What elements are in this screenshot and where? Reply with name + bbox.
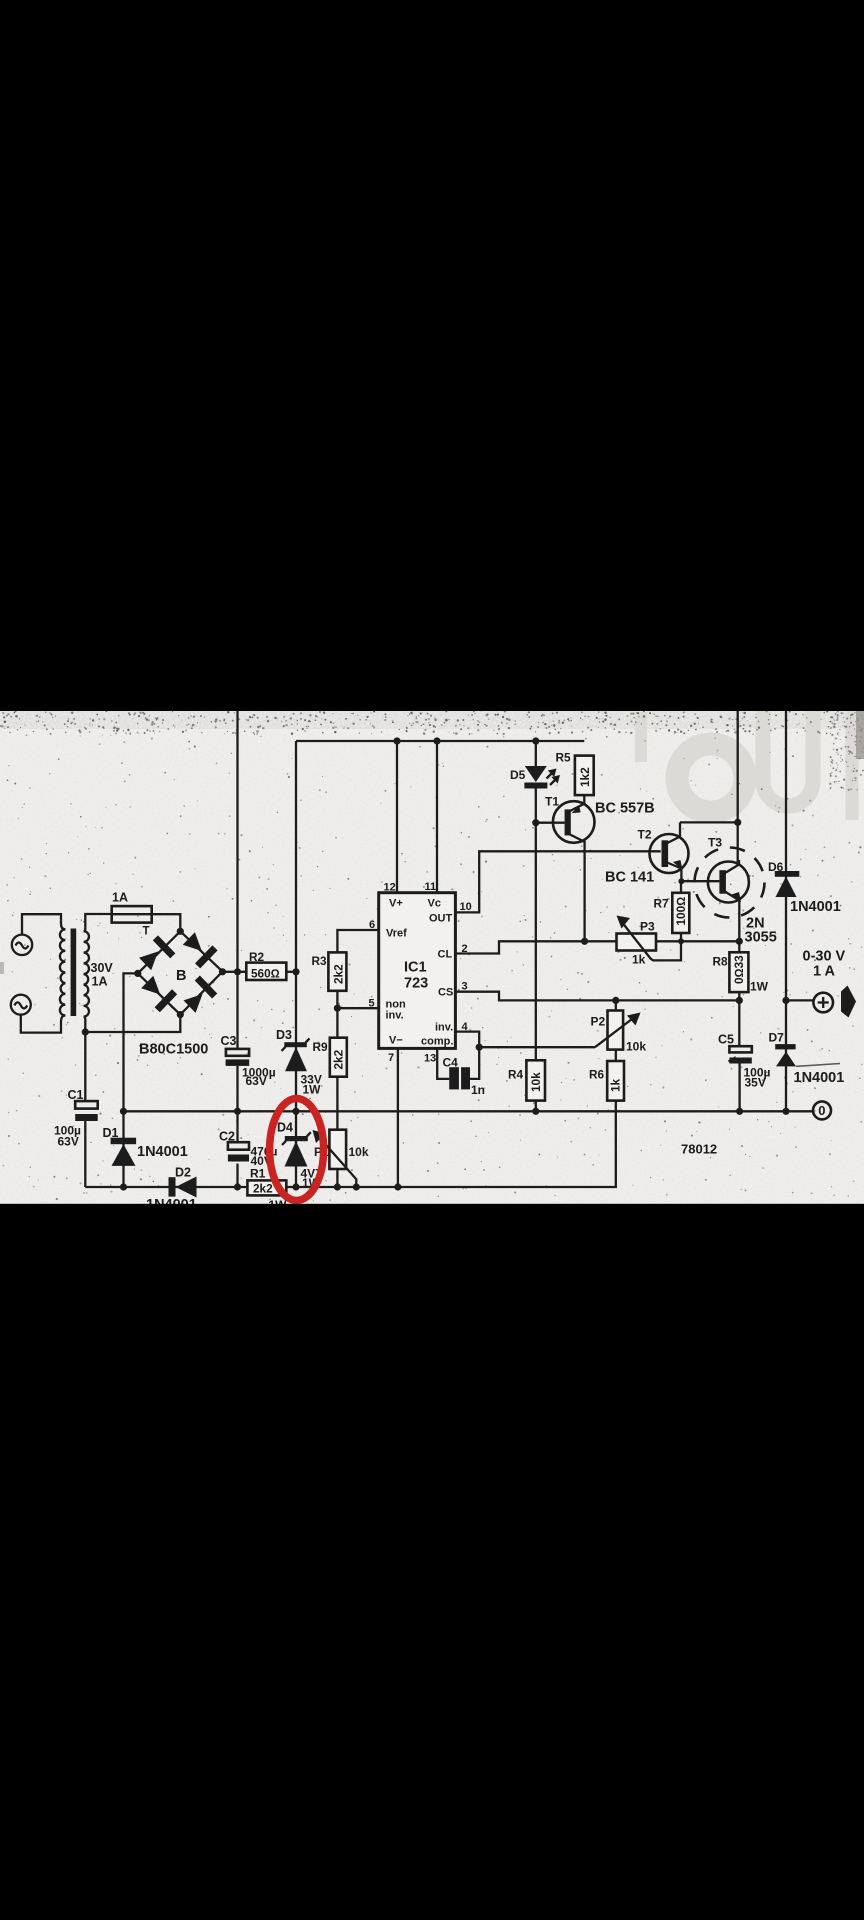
wire R5 bottom to T1 emitter (583, 795, 585, 803)
potentiometer P3 1k (617, 916, 682, 961)
diode D2 series in bottom rail (169, 1177, 197, 1198)
node line A mid: C3 to C2 (236, 1066, 238, 1142)
wire T2 collector to T3 collector line (680, 821, 738, 823)
junction C5 / 0V rail (736, 1108, 743, 1115)
junction R7 bottom / P3 wire (678, 938, 684, 944)
svg-text:P3: P3 (640, 920, 655, 934)
capacitor C5 (729, 1000, 752, 1111)
zener diode D3 33V (282, 1038, 310, 1071)
zener diode D4 4V7 (282, 1132, 311, 1166)
LED D5 (524, 741, 547, 823)
wire IC pin 11 to top rail (436, 741, 438, 893)
svg-text:R8: R8 (713, 955, 729, 969)
junction line B / bottom rail (292, 1183, 299, 1190)
bridge diode bottom-left (141, 976, 177, 1013)
junction line B / 0V rail (292, 1108, 299, 1115)
svg-text:P2: P2 (591, 1015, 606, 1029)
label 470u 40V C2 (251, 1145, 278, 1169)
transistor T1 BC557B (536, 801, 595, 851)
label 100u 35V C5 (744, 1066, 771, 1090)
svg-text:T1: T1 (545, 795, 559, 809)
resistor R2 (246, 963, 286, 981)
junction transformer secondary bottom / C1 (82, 1028, 89, 1035)
wire bottom negative rail (85, 1101, 616, 1187)
resistor R7 (672, 893, 689, 933)
svg-text:10: 10 (460, 901, 472, 913)
capacitor C2 (228, 1142, 249, 1187)
wire fuse to bridge top corner (152, 914, 181, 931)
capacitor C4 1n (449, 1067, 470, 1089)
output terminal 0 (813, 1101, 831, 1119)
svg-text:R6: R6 (589, 1068, 605, 1082)
junction bridge top corner (177, 928, 184, 935)
paper background (0, 711, 864, 1204)
resistor R9 (330, 1038, 347, 1077)
wire C1 branch (84, 1032, 86, 1187)
wire AC upper terminal to transformer primary top (22, 914, 65, 934)
potentiometer P1 10k (313, 1130, 357, 1187)
svg-text:OUT: OUT (429, 913, 453, 925)
svg-text:1A: 1A (92, 975, 108, 989)
wire transformer secondary top to fuse (84, 914, 112, 931)
junction T1 base / D5 line (532, 819, 539, 826)
fuse 1A (112, 906, 152, 923)
junction T2 collector / T3 collector line (734, 819, 741, 826)
svg-text:1N4001: 1N4001 (790, 899, 841, 915)
svg-text:T: T (143, 926, 150, 938)
svg-text:1k: 1k (609, 1078, 623, 1092)
svg-text:D7: D7 (769, 1031, 785, 1045)
node line A top: border to bridge right corner (236, 711, 238, 1049)
svg-text:1n: 1n (471, 1083, 485, 1097)
transformer T secondary winding (84, 931, 89, 1016)
wire P3 right to R7 bottom (656, 940, 739, 942)
junction P1 body / bottom rail (334, 1183, 341, 1190)
node D6-D7 line from top border (785, 711, 787, 1111)
svg-text:1A: 1A (112, 891, 128, 905)
svg-text:C1: C1 (68, 1088, 84, 1102)
svg-text:C3: C3 (221, 1034, 237, 1048)
svg-text:2: 2 (462, 943, 468, 955)
transformer T core (71, 929, 77, 1017)
junction 0V rail / C3-C2 line (234, 1108, 241, 1115)
label 30V 1A transformer (91, 961, 114, 989)
label 100u 63V C1 (54, 1124, 81, 1149)
svg-text:D1: D1 (103, 1126, 119, 1140)
resistor R5 (575, 756, 594, 796)
svg-text:T3: T3 (708, 836, 722, 850)
transistor T3 2N3055 (695, 848, 765, 942)
wire IC pin 12 to top rail (396, 741, 398, 893)
resistor R8 (729, 941, 748, 1000)
wire 0V rail (124, 1110, 814, 1112)
wire top supply rail (296, 740, 584, 742)
junction bottom rail / D1 (120, 1183, 127, 1190)
svg-text:Vref: Vref (386, 928, 407, 940)
svg-text:1k2: 1k2 (578, 767, 592, 787)
wire pin4 node to P2 wiper (479, 1046, 595, 1048)
AC mains terminal upper (12, 935, 32, 955)
svg-text:comp.: comp. (421, 1036, 453, 1048)
svg-text:inv.: inv. (386, 1010, 404, 1022)
svg-text:CS: CS (438, 987, 453, 999)
wire C4 right to pin4 node (470, 1047, 479, 1079)
bridge diode top-right (183, 932, 218, 968)
svg-text:11: 11 (425, 881, 437, 893)
svg-text:BC 557B: BC 557B (595, 801, 655, 817)
wire IC pin 7 down to bottom rail (397, 1048, 399, 1187)
svg-text:C5: C5 (718, 1033, 734, 1047)
potentiometer P2 10k (595, 1000, 641, 1049)
junction T2 emitter / T3 base / R7 (678, 878, 684, 884)
svg-text:723: 723 (404, 976, 428, 992)
svg-text:10k: 10k (626, 1040, 646, 1054)
svg-text:R2: R2 (249, 950, 265, 964)
svg-text:B: B (176, 968, 186, 984)
junction pin 11 / top rail (433, 737, 440, 744)
node T3 collector line from top border (737, 711, 739, 863)
svg-text:V+: V+ (389, 898, 403, 910)
junction D6 line / CS output wire (782, 997, 789, 1004)
svg-text:inv.: inv. (435, 1022, 453, 1034)
svg-text:Vc: Vc (428, 898, 441, 910)
junction T1 collector / CL wire (581, 938, 588, 945)
junction bridge bottom corner (177, 1011, 184, 1018)
LED D5 emission arrows (547, 769, 561, 786)
IC1 723 box (379, 893, 456, 1049)
junction bridge left corner (134, 970, 141, 977)
output arrow symbol (841, 986, 856, 1018)
svg-text:IC1: IC1 (404, 960, 427, 976)
bridge rectifier B diamond wires (138, 931, 223, 1014)
junction CS wire / P2 line (612, 997, 619, 1004)
paper tear line near D7 (796, 1064, 840, 1067)
svg-text:63V: 63V (58, 1135, 79, 1149)
transformer T primary winding (60, 929, 65, 1015)
wire transformer secondary bottom to bridge bottom corner (84, 1015, 181, 1032)
svg-text:R4: R4 (508, 1068, 524, 1082)
junction R8 bottom / CS wire (736, 997, 743, 1004)
junction bottom rail / C2 (234, 1183, 241, 1190)
bridge diode top-left (139, 935, 175, 970)
svg-text:78012: 78012 (681, 1142, 717, 1157)
svg-text:R3: R3 (312, 954, 328, 968)
svg-text:0Ω33: 0Ω33 (732, 955, 746, 984)
svg-text:CL: CL (438, 949, 453, 961)
svg-text:560Ω: 560Ω (251, 966, 280, 980)
svg-text:3: 3 (462, 981, 468, 993)
junction D7 / 0V rail (782, 1108, 789, 1115)
wire T1 collector down to CL junction (583, 851, 585, 941)
junction bridge right corner (219, 968, 226, 975)
svg-text:0-30 V: 0-30 V (803, 949, 846, 965)
output terminal plus (813, 993, 833, 1013)
svg-text:R7: R7 (654, 897, 670, 911)
transistor T2 BC141 (650, 822, 689, 873)
wire R3 top to IC pin 6 (337, 930, 378, 952)
svg-text:2k2: 2k2 (253, 1182, 273, 1196)
resistor R1 (247, 1180, 286, 1195)
svg-text:BC 141: BC 141 (605, 870, 654, 886)
wire IC pin 4 to node (455, 1032, 479, 1048)
svg-text:R9: R9 (313, 1040, 329, 1054)
bottom black bar overlay (0, 1204, 864, 1920)
svg-text:V−: V− (389, 1035, 403, 1047)
diode D1 1N4001 (111, 1111, 137, 1187)
svg-text:1N4001: 1N4001 (137, 1144, 188, 1160)
svg-text:35V: 35V (745, 1076, 766, 1090)
svg-text:D3: D3 (276, 1028, 292, 1042)
junction R4 / 0V rail (532, 1108, 539, 1115)
svg-text:0: 0 (818, 1103, 825, 1118)
junction line A / R2 wire (234, 968, 241, 975)
svg-text:10k: 10k (349, 1145, 369, 1159)
bridge diode bottom-right (183, 976, 217, 1013)
wire R2 right to line B (286, 971, 296, 973)
svg-text:2k2: 2k2 (332, 1049, 346, 1069)
wire bridge right corner to R2 (223, 971, 247, 973)
wire IC pin 13 to C4 (437, 1048, 449, 1079)
svg-text:1k: 1k (632, 953, 646, 967)
svg-text:R1: R1 (250, 1167, 266, 1181)
junction pin4 / C4 / P2 wiper wire (476, 1044, 483, 1051)
svg-text:30V: 30V (91, 961, 114, 975)
svg-text:C2: C2 (219, 1130, 235, 1144)
diode D6 1N4001 (775, 871, 800, 897)
junction pin7 / bottom rail (394, 1183, 401, 1190)
wire bridge left corner to D1 branch (124, 973, 138, 1111)
svg-text:D5: D5 (510, 768, 526, 782)
svg-text:1 A: 1 A (813, 964, 836, 980)
red highlight ellipse around D4 (270, 1099, 324, 1201)
svg-text:13: 13 (424, 1053, 436, 1065)
svg-text:B80C1500: B80C1500 (139, 1042, 208, 1058)
wire junction to IC pin 5 (337, 1007, 378, 1009)
watermark letters (677, 744, 745, 812)
svg-text:T2: T2 (638, 828, 652, 842)
junction D5 line / top rail (532, 737, 539, 744)
label 4V7 1W D4 (301, 1167, 323, 1191)
AC mains terminal lower (11, 995, 31, 1015)
svg-text:3055: 3055 (745, 930, 777, 946)
label 33V 1W D3 (301, 1073, 322, 1097)
junction T3 emitter / R8 top (736, 938, 743, 945)
svg-text:4: 4 (462, 1021, 469, 1033)
junction pin 12 / top rail (393, 737, 400, 744)
svg-text:63V: 63V (246, 1074, 267, 1088)
junction R2 / line B (292, 968, 299, 975)
capacitor C3 (226, 1049, 250, 1066)
label 1000u 63V (242, 1066, 276, 1089)
svg-text:12: 12 (384, 882, 396, 894)
junction R3-R9 / pin 5 (334, 1005, 341, 1012)
svg-text:R5: R5 (556, 751, 572, 765)
svg-text:7: 7 (388, 1052, 394, 1064)
wire R7 to T2 emitter and T3 base (681, 868, 719, 942)
wire D5 junction to R4 top (crosses OUT CL CS wires) (535, 823, 537, 1061)
svg-text:10k: 10k (529, 1072, 543, 1092)
wire to plus terminal (786, 999, 814, 1001)
svg-text:1W: 1W (303, 1083, 322, 1097)
svg-text:1W: 1W (750, 980, 769, 994)
resistor R3 (328, 952, 346, 990)
svg-text:2k2: 2k2 (332, 964, 346, 984)
wire AC lower terminal to transformer primary bottom (21, 1015, 66, 1033)
junction 0V rail / D1 (120, 1108, 127, 1115)
diode D7 1N4001 (775, 1044, 796, 1066)
svg-text:D4: D4 (277, 1121, 293, 1135)
label 2N 3055 (745, 916, 777, 946)
svg-text:5: 5 (369, 998, 375, 1010)
wire IC pin 10 OUT to T2 base (455, 851, 660, 912)
wire IC pin 2 CL to P3 (455, 941, 616, 953)
capacitor C1 (75, 1101, 98, 1121)
label 0-30 V 1 A (803, 949, 846, 980)
svg-text:1N4001: 1N4001 (794, 1070, 845, 1086)
node line B vertical (top wire to bottom rail through D3 D4) (295, 741, 297, 1187)
resistor R6 (607, 1050, 624, 1101)
svg-text:C4: C4 (443, 1056, 459, 1070)
wire R9 bottom to P1 top (crosses 0V rail) (336, 1077, 338, 1130)
junction P1 wiper / bottom rail (353, 1183, 360, 1190)
resistor R4 (526, 1060, 545, 1111)
svg-text:D6: D6 (768, 860, 784, 874)
svg-text:D2: D2 (175, 1166, 191, 1180)
svg-text:100Ω: 100Ω (674, 897, 688, 926)
wire R3 bottom to R9 top (336, 991, 338, 1038)
svg-text:6: 6 (369, 919, 375, 931)
wire IC pin 3 CS to R8 bottom (455, 992, 739, 1001)
